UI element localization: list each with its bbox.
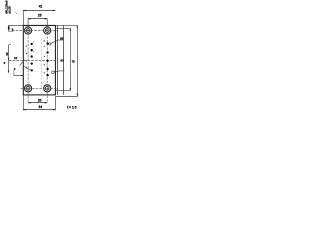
svg-text:41: 41 bbox=[39, 5, 43, 9]
svg-text:12: 12 bbox=[14, 56, 18, 60]
svg-text:75: 75 bbox=[72, 60, 76, 64]
svg-text:25: 25 bbox=[38, 13, 42, 17]
svg-text:t=10: t=10 bbox=[67, 105, 78, 109]
svg-text:34: 34 bbox=[39, 105, 43, 109]
svg-text:63: 63 bbox=[60, 58, 64, 62]
svg-text:20: 20 bbox=[38, 99, 42, 103]
svg-text:±0,05: ±0,05 bbox=[7, 6, 11, 14]
svg-text:30: 30 bbox=[5, 52, 9, 56]
svg-text:35: 35 bbox=[60, 36, 64, 40]
